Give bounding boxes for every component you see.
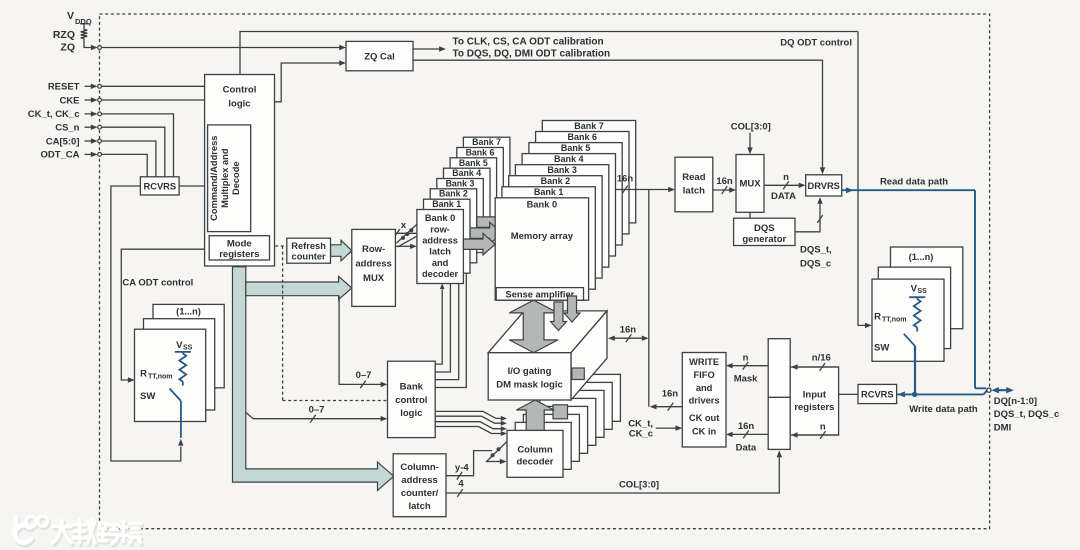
svg-text:Bank 1: Bank 1 [534,187,564,197]
svg-text:Bank 0: Bank 0 [425,213,456,223]
svg-text:Bank 3: Bank 3 [446,178,475,188]
svg-text:Mode: Mode [227,238,252,249]
svg-text:Control: Control [223,85,257,96]
svg-text:CS_n: CS_n [55,123,79,134]
svg-text:Multiplex and: Multiplex and [220,148,230,208]
svg-text:V: V [67,10,74,22]
svg-text:0–7: 0–7 [356,370,372,381]
svg-text:DQS_t,: DQS_t, [800,245,832,256]
svg-text:Mask: Mask [734,374,758,385]
svg-text:To DQS, DQ, DMI ODT calibratio: To DQS, DQ, DMI ODT calibration [453,48,611,59]
svg-text:Decode: Decode [231,161,241,195]
svg-text:Column-: Column- [400,462,439,473]
svg-text:Bank 2: Bank 2 [439,189,468,199]
svg-text:Bank 0: Bank 0 [527,200,558,210]
svg-text:x: x [401,220,407,231]
svg-text:counter/: counter/ [401,488,439,499]
svg-text:COL[3:0]: COL[3:0] [619,479,659,490]
svg-text:Bank 4: Bank 4 [554,154,584,164]
svg-text:registers: registers [794,402,834,413]
svg-text:Bank: Bank [400,382,424,393]
svg-text:Read data path: Read data path [880,176,948,187]
svg-text:address: address [401,475,437,486]
svg-text:address: address [355,258,391,269]
svg-text:DQS: DQS [754,223,775,234]
svg-text:control: control [395,395,427,406]
svg-text:16n: 16n [738,421,755,432]
svg-text:Bank 6: Bank 6 [466,147,495,157]
svg-text:n: n [820,421,826,432]
svg-text:DQS_t, DQS_c: DQS_t, DQS_c [994,409,1059,420]
svg-text:MUX: MUX [739,179,761,190]
svg-text:ZQ: ZQ [60,41,75,53]
svg-text:Bank 5: Bank 5 [459,158,488,168]
svg-text:RZQ: RZQ [53,29,75,41]
svg-text:Bank 5: Bank 5 [561,143,591,153]
svg-text:SW: SW [140,391,155,402]
svg-text:SW: SW [874,343,889,354]
svg-text:Bank 7: Bank 7 [574,121,604,131]
svg-text:n: n [783,172,789,183]
svg-text:Bank 2: Bank 2 [541,176,571,186]
svg-text:and: and [432,258,449,268]
svg-text:y-4: y-4 [455,463,469,474]
svg-text:latch: latch [409,501,431,512]
svg-text:CK in: CK in [692,426,717,436]
svg-text:DQS_c: DQS_c [800,258,831,269]
svg-text:RCVRS: RCVRS [861,389,894,399]
svg-text:Write data path: Write data path [909,404,978,415]
svg-text:Bank 6: Bank 6 [568,132,598,142]
svg-text:Bank 3: Bank 3 [547,165,577,175]
svg-text:DATA: DATA [771,191,796,202]
svg-text:Bank 4: Bank 4 [452,168,481,178]
svg-text:DMI: DMI [994,422,1011,433]
svg-text:latch: latch [429,247,451,257]
svg-text:MUX: MUX [363,273,385,284]
svg-text:n/16: n/16 [812,352,831,363]
svg-text:TT,nom: TT,nom [148,374,173,381]
svg-text:CK out: CK out [689,413,719,423]
svg-text:R: R [140,369,147,380]
svg-text:row-: row- [430,224,450,234]
svg-text:4: 4 [458,478,464,489]
svg-text:COL[3:0]: COL[3:0] [731,122,771,133]
svg-text:16n: 16n [620,324,637,335]
svg-text:16n: 16n [716,176,733,187]
svg-text:CKE: CKE [59,95,79,106]
svg-text:To CLK, CS, CA ODT calibration: To CLK, CS, CA ODT calibration [453,37,604,48]
svg-text:and: and [696,383,713,393]
svg-text:FIFO: FIFO [694,370,715,380]
svg-text:SS: SS [918,288,928,295]
svg-text:decoder: decoder [422,269,459,279]
svg-text:decoder: decoder [517,457,554,468]
svg-text:Sense amplifier: Sense amplifier [506,289,575,299]
svg-text:DDQ: DDQ [75,17,92,26]
svg-text:DRVRS: DRVRS [808,181,840,191]
svg-text:Command/Address: Command/Address [209,136,219,221]
svg-text:Row-: Row- [362,244,385,255]
svg-text:logic: logic [400,408,422,419]
svg-text:(1...n): (1...n) [909,252,934,262]
svg-text:registers: registers [219,249,259,260]
svg-text:generator: generator [742,234,786,245]
svg-text:R: R [874,312,881,323]
svg-text:n: n [743,352,749,363]
svg-text:CK_c: CK_c [629,429,653,440]
svg-text:drivers: drivers [689,396,720,406]
svg-text:16n: 16n [617,174,634,185]
svg-text:CK_t,: CK_t, [628,418,653,429]
svg-text:Read: Read [682,172,705,183]
svg-text:DQ ODT control: DQ ODT control [780,38,852,49]
svg-text:CA ODT control: CA ODT control [122,278,193,289]
svg-text:(1...n): (1...n) [176,307,201,317]
svg-text:SS: SS [183,345,193,352]
svg-text:latch: latch [683,186,705,197]
svg-text:Input: Input [803,389,827,400]
svg-text:WRITE: WRITE [689,357,719,367]
svg-text:RESET: RESET [48,82,80,93]
svg-text:ODT_CA: ODT_CA [40,150,79,161]
svg-text:I/O gating: I/O gating [508,366,552,377]
svg-text:Bank 1: Bank 1 [432,199,461,209]
svg-text:CK_t, CK_c: CK_t, CK_c [28,109,80,120]
svg-text:ZQ Cal: ZQ Cal [364,52,395,63]
svg-text:0–7: 0–7 [309,405,325,416]
svg-text:Memory array: Memory array [511,231,574,242]
svg-text:DM mask logic: DM mask logic [496,380,563,391]
svg-text:logic: logic [228,98,250,109]
svg-text:RCVRS: RCVRS [144,181,177,191]
svg-text:Refresh: Refresh [291,241,326,251]
svg-text:Data: Data [736,442,757,453]
svg-text:TT,nom: TT,nom [882,316,907,323]
svg-text:16n: 16n [662,389,679,400]
svg-text:address: address [422,236,458,246]
svg-text:Bank 7: Bank 7 [472,137,501,147]
svg-text:CA[5:0]: CA[5:0] [46,136,80,147]
svg-text:DQ[n-1:0]: DQ[n-1:0] [994,396,1037,407]
svg-text:Column: Column [517,445,553,456]
svg-text:counter: counter [292,252,326,262]
